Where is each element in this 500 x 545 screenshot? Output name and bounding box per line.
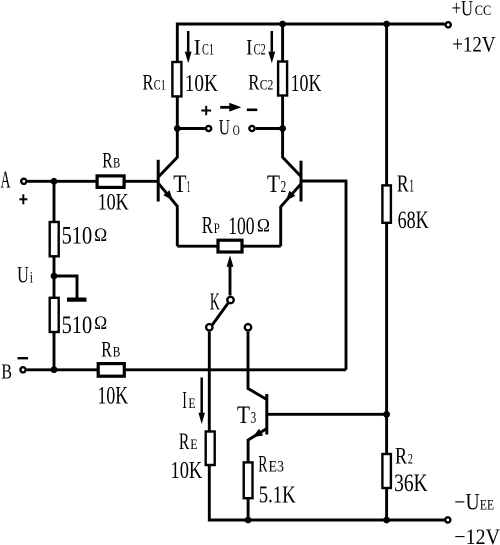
svg-text:R: R (202, 213, 213, 239)
svg-text:1: 1 (409, 176, 414, 196)
svg-text:68K: 68K (398, 206, 429, 234)
svg-text:10K: 10K (171, 457, 203, 484)
svg-text:−U: −U (454, 489, 479, 515)
svg-text:O: O (233, 122, 240, 139)
svg-text:C1: C1 (154, 77, 166, 93)
svg-text:36K: 36K (394, 469, 427, 497)
svg-text:10K: 10K (98, 191, 129, 216)
svg-text:A: A (1, 168, 11, 194)
svg-text:T: T (267, 170, 280, 198)
svg-text:+U: +U (452, 0, 473, 21)
svg-text:R: R (397, 170, 409, 197)
svg-text:T: T (173, 171, 186, 199)
svg-text:P: P (214, 219, 220, 236)
svg-text:E3: E3 (269, 459, 284, 476)
svg-text:K: K (210, 290, 220, 316)
svg-text:B: B (113, 343, 121, 360)
svg-text:10K: 10K (98, 382, 129, 410)
svg-text:Ω: Ω (257, 215, 270, 236)
svg-text:3: 3 (251, 409, 257, 428)
svg-text:C1: C1 (202, 40, 214, 58)
svg-text:U: U (17, 263, 29, 288)
svg-text:U: U (219, 116, 230, 140)
svg-text:R: R (395, 444, 407, 469)
svg-text:R: R (179, 429, 190, 455)
svg-text:510: 510 (62, 311, 93, 338)
svg-text:I: I (246, 35, 253, 59)
svg-text:E: E (190, 436, 197, 453)
svg-text:R: R (248, 72, 260, 96)
svg-text:R: R (101, 338, 112, 362)
svg-text:R: R (102, 149, 113, 173)
svg-text:−12V: −12V (454, 524, 500, 545)
svg-text:E: E (188, 395, 195, 412)
svg-text:10K: 10K (291, 69, 322, 96)
svg-text:C2: C2 (260, 76, 274, 93)
svg-text:C2: C2 (254, 40, 266, 58)
svg-text:I: I (194, 34, 201, 59)
svg-text:+12V: +12V (452, 33, 496, 57)
svg-text:R: R (143, 71, 154, 95)
svg-text:Ω: Ω (94, 312, 107, 333)
svg-text:CC: CC (475, 2, 491, 18)
svg-text:B: B (1, 360, 12, 384)
svg-text:10K: 10K (185, 70, 218, 97)
svg-text:2: 2 (281, 178, 287, 197)
svg-text:B: B (113, 154, 120, 171)
svg-text:i: i (30, 270, 33, 287)
svg-text:2: 2 (408, 450, 413, 466)
svg-text:1: 1 (187, 176, 191, 196)
svg-text:100: 100 (228, 212, 254, 240)
svg-text:I: I (182, 388, 186, 414)
svg-text:R: R (258, 452, 267, 477)
svg-text:Ω: Ω (94, 224, 107, 245)
svg-text:510: 510 (62, 222, 93, 249)
svg-text:5.1K: 5.1K (259, 481, 296, 508)
svg-text:T: T (237, 401, 250, 429)
svg-text:EE: EE (480, 496, 494, 513)
